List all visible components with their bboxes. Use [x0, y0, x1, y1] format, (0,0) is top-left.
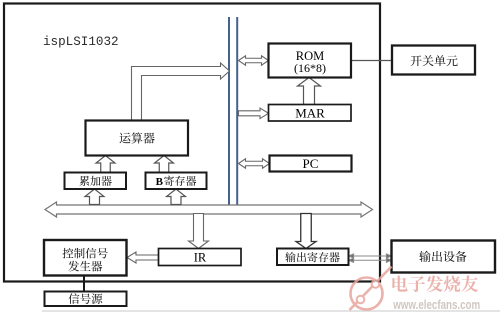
- svg-text:ispLSI1032: ispLSI1032: [43, 35, 119, 49]
- block IR: [159, 249, 242, 266]
- label fa-sheng-qi (generator) line 2: [68, 261, 102, 272]
- label ji-cun-qi (register): [164, 176, 196, 186]
- block switch unit (kai-guan-dan-yuan): [392, 46, 475, 75]
- label ispLSI1032: [43, 35, 119, 49]
- wire: ALU to internal bus (bent hollow arrow): [132, 63, 230, 121]
- block accumulator (lei-jia-qi): [65, 173, 127, 190]
- wire: bus to accumulator (hollow up arrow): [85, 189, 104, 205]
- label shu-chu-she-bei (output device): [419, 251, 466, 262]
- wire: ROM to switch unit: [351, 60, 392, 62]
- block PC: [270, 156, 352, 172]
- wire: bus to ROM (double hollow arrow): [239, 56, 269, 66]
- wire: MAR to ROM (hollow up arrow): [298, 78, 321, 105]
- label kai-guan-dan-yuan (switch unit): [410, 55, 457, 66]
- svg-text:IR: IR: [194, 251, 207, 265]
- label B register: [156, 176, 164, 188]
- wire: output register to output device (double line, arrows both ends): [349, 254, 391, 262]
- label IR: [194, 251, 207, 265]
- watermark faint underline: [42, 310, 500, 312]
- label lei-jia-qi (accumulator): [79, 176, 111, 186]
- block MAR: [269, 105, 352, 122]
- wire: control signal generator to signal source: [83, 275, 85, 292]
- wire: bus to IR (hollow down arrow): [189, 214, 209, 249]
- wire: bus to PC (double hollow arrow): [239, 159, 270, 169]
- block ROM: [269, 44, 352, 78]
- block output device (shu-chu-she-bei): [392, 241, 496, 273]
- label yun-suan-qi (ALU): [120, 132, 155, 143]
- system bus (horizontal double-headed hollow arrow): [45, 202, 373, 217]
- block B register: [146, 173, 207, 190]
- wire: accumulator to ALU (hollow up arrow): [96, 156, 115, 173]
- svg-text:(16*8): (16*8): [294, 61, 326, 75]
- svg-text:B: B: [156, 176, 164, 188]
- watermark text dian-zi-fa-shao-you (elecfans): [391, 274, 478, 292]
- wire: bus to MAR (hollow right arrow): [239, 108, 269, 119]
- svg-text:www.elecfans.com: www.elecfans.com: [392, 298, 480, 312]
- label ROM: [294, 49, 326, 75]
- label kong-zhi-xin-hao (control signal) line 1: [63, 248, 108, 259]
- wire: IR to control signal generator (hollow left arrow): [127, 252, 159, 263]
- chip boundary ispLSI1032: [4, 4, 380, 282]
- wire: bus to B register (hollow up arrow): [167, 189, 186, 205]
- block ALU (yun-suan-qi): [86, 121, 189, 156]
- label shu-chu-ji-cun-qi (output register): [285, 252, 340, 262]
- label MAR: [295, 106, 325, 121]
- svg-text:PC: PC: [303, 156, 319, 171]
- internal bus (vertical blue pair): [229, 17, 237, 213]
- watermark elecfans logo (circle + slash + dots): [350, 267, 392, 311]
- block output register (shu-chu-ji-cun-qi): [277, 249, 349, 266]
- label xin-hao-yuan (signal source): [69, 293, 103, 304]
- watermark url www.elecfans.com: [391, 297, 480, 312]
- wire: B register to ALU (hollow up arrow): [155, 156, 174, 173]
- block signal source (xin-hao-yuan): [45, 292, 127, 307]
- wire: bus to output register (hollow down arrow): [296, 214, 316, 249]
- svg-text:MAR: MAR: [295, 106, 325, 121]
- label PC: [303, 156, 319, 171]
- block control signal generator (kong-zhi-xin-hao fa-sheng-qi): [44, 240, 127, 276]
